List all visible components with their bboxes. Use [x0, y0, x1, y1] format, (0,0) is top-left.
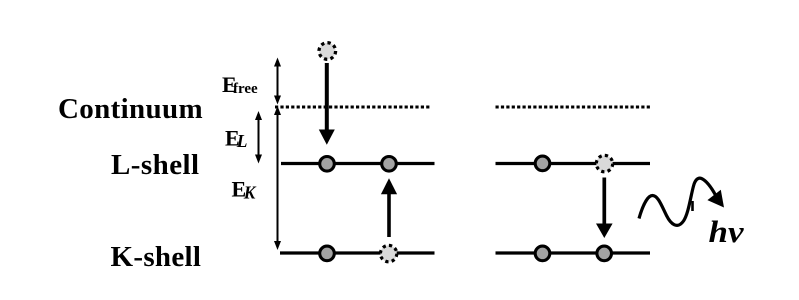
photon wave junction tick — [691, 201, 694, 211]
level line: left L-shell — [281, 162, 435, 165]
svg-text:K-shell: K-shell — [111, 241, 202, 273]
svg-text:free: free — [233, 81, 258, 97]
svg-text:Continuum: Continuum — [58, 93, 203, 125]
free electron (dotted circle above continuum) — [319, 43, 336, 60]
level line: right K-shell — [496, 251, 651, 254]
transition arrow: electron dropping from L-shell to K-shell (right, downward) — [596, 178, 613, 239]
electron on left L-shell (left circle) — [320, 157, 335, 172]
transition arrow: electron excited from K-shell to L-shell (left, upward) — [381, 178, 397, 237]
level line: right continuum (dotted) — [496, 106, 651, 109]
hole on right L-shell (dotted circle) — [596, 155, 612, 171]
svg-text:K: K — [243, 182, 257, 202]
hole on left K-shell (dotted circle) — [380, 245, 396, 261]
svg-text:L: L — [236, 131, 248, 151]
level line: left K-shell — [280, 251, 435, 254]
photon arrowhead — [707, 190, 724, 208]
electron on right K-shell (right circle) — [597, 246, 612, 261]
level line: right L-shell — [496, 162, 651, 165]
svg-text:hν: hν — [709, 214, 745, 249]
electron on left L-shell (right circle) — [382, 157, 397, 172]
measurement arrow E_K (double-headed, continuum to K-shell) — [274, 106, 281, 250]
electron on right K-shell (left circle) — [535, 246, 550, 261]
emitted photon wavy arrow — [639, 178, 716, 225]
transition arrow: electron falling from continuum to L-shell (left) — [319, 63, 335, 145]
electron on left K-shell — [320, 246, 335, 261]
level line: left continuum (dotted) — [275, 106, 431, 109]
svg-text:L-shell: L-shell — [111, 149, 200, 181]
measurement arrow E_L (double-headed, continuum to L-shell) — [255, 111, 262, 164]
electron on right L-shell — [535, 156, 550, 171]
measurement arrow E_free (double-headed, top to continuum) — [274, 58, 281, 105]
